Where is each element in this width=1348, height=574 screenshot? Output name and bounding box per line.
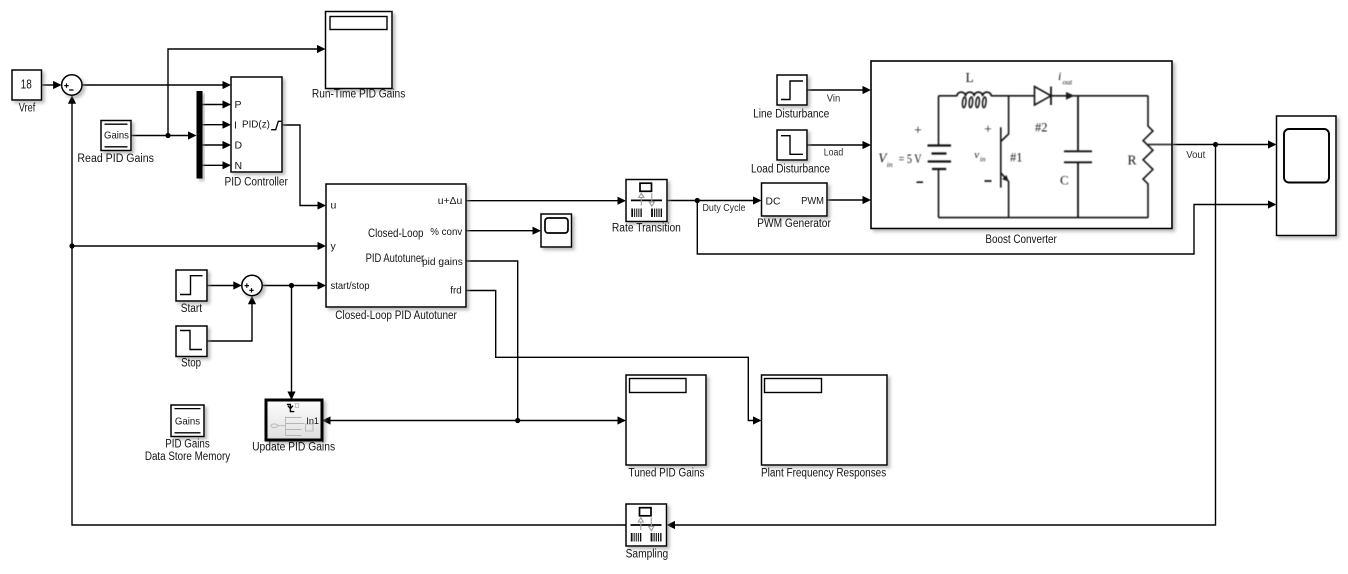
svg-text:u+Δu: u+Δu xyxy=(438,195,463,207)
wire Load Disturbance to Boost Converter xyxy=(807,144,864,146)
svg-text:in: in xyxy=(980,156,986,164)
arrow demux I into PID xyxy=(223,121,232,129)
svg-text:I: I xyxy=(234,119,237,131)
svg-text:C: C xyxy=(1060,173,1069,188)
svg-text:v: v xyxy=(974,149,979,161)
svg-text:18: 18 xyxy=(21,78,32,92)
wire Rate Transition to PWM Generator xyxy=(667,200,755,202)
svg-text:P: P xyxy=(235,99,242,111)
svg-text:PWM: PWM xyxy=(801,195,824,207)
node Duty Cycle branch xyxy=(695,198,700,203)
svg-text:PID Autotuner: PID Autotuner xyxy=(366,251,425,265)
wire demux out D xyxy=(203,144,225,146)
svg-text:Tuned PID Gains: Tuned PID Gains xyxy=(629,468,705,480)
svg-text:PWM Generator: PWM Generator xyxy=(757,218,831,230)
inductor L xyxy=(957,92,991,96)
wire conv to small scope xyxy=(466,230,534,232)
svg-text:start/stop: start/stop xyxy=(331,280,370,292)
wire Stop to Sum2 bottom xyxy=(207,303,252,341)
capacitor C xyxy=(1064,96,1092,218)
arrow into Sum2 xyxy=(233,281,242,289)
wire top rail middle xyxy=(991,95,1034,97)
wire battery top xyxy=(938,96,940,145)
arrow into PID Controller top input xyxy=(223,81,232,89)
scope big (Vout display) xyxy=(1277,116,1337,236)
step block Start xyxy=(176,270,207,301)
wire pid gains right branch to Tuned PID Gains xyxy=(518,420,619,422)
svg-text:Read PID Gains: Read PID Gains xyxy=(77,153,154,165)
resistor R xyxy=(1143,96,1153,218)
wire Vout branch down to Sampling xyxy=(675,145,1216,526)
sum block Sum2 xyxy=(242,275,262,295)
svg-text:= 5 V: = 5 V xyxy=(899,151,922,166)
wire bottom rail xyxy=(939,217,1149,219)
wire Read PID Gains to Demux xyxy=(131,135,190,137)
wire PID Controller output to Autotuner u xyxy=(282,125,319,206)
arrow into Tuned PID Gains xyxy=(618,416,627,424)
svg-text:Rate Transition: Rate Transition xyxy=(612,223,681,235)
constant Vref xyxy=(12,70,42,100)
svg-text:R: R xyxy=(1128,153,1137,168)
arrow into Boost input 3 xyxy=(863,196,872,204)
arrow demux D into PID xyxy=(223,141,232,149)
svg-text:PID Controller: PID Controller xyxy=(225,176,289,188)
arrow into Update PID Gains trigger xyxy=(287,392,295,401)
arrow into Sum1 bottom (feedback) xyxy=(68,95,76,104)
node feedback y branch xyxy=(69,243,74,248)
arrow into PWM Generator xyxy=(753,196,762,204)
scope Plant Frequency Responses xyxy=(762,375,888,465)
svg-text:Duty Cycle: Duty Cycle xyxy=(703,203,746,214)
wire frd to Plant Frequency Responses xyxy=(466,291,755,421)
arrow into small scope xyxy=(533,227,542,235)
rate transition block Sampling xyxy=(626,504,667,546)
mini preview xyxy=(271,417,313,437)
subsystem Boost Converter xyxy=(871,61,1172,229)
wire top rail right xyxy=(1051,95,1148,97)
svg-text:Load: Load xyxy=(824,147,843,158)
arrow into Boost input 2 xyxy=(863,141,872,149)
svg-text:N: N xyxy=(235,160,243,172)
arrow into Sum1 xyxy=(53,81,62,89)
output stub Vout xyxy=(1148,144,1172,146)
ARROWS xyxy=(53,45,1276,529)
svg-text:Gains: Gains xyxy=(175,415,200,427)
svg-text:+: + xyxy=(914,124,922,139)
wire Duty Cycle branch to big scope input 2 xyxy=(697,201,1269,255)
arrow into Update PID Gains In1 (pointing left) xyxy=(322,416,331,424)
svg-text:D: D xyxy=(235,140,243,152)
wire PWM Generator to Boost Converter xyxy=(827,199,864,201)
circuit inside Boost Converter xyxy=(878,69,1171,218)
scope Run-Time PID Gains xyxy=(326,12,393,89)
svg-text:frd: frd xyxy=(450,285,462,297)
arrow into Demux xyxy=(188,131,197,139)
arrow into big scope input 1 xyxy=(1268,140,1277,148)
svg-text:L: L xyxy=(966,70,974,85)
node Vout branch xyxy=(1213,142,1218,147)
wire demux out P xyxy=(203,104,225,106)
wire Vout to big scope input 1 xyxy=(1172,144,1270,146)
svg-text:in: in xyxy=(887,160,893,169)
svg-text:PID Gains: PID Gains xyxy=(165,439,210,451)
wire y input from feedback to Autotuner xyxy=(72,245,319,247)
wire feedback vertical from Sampling up to Sum1 minus input xyxy=(72,103,626,525)
wire Start to Sum2 xyxy=(207,285,235,287)
svg-text:Boost Converter: Boost Converter xyxy=(985,234,1057,246)
arrow demux N into PID xyxy=(223,161,232,169)
svg-text:Vin: Vin xyxy=(827,93,841,104)
trigger glyph xyxy=(287,404,294,411)
svg-text:Stop: Stop xyxy=(181,357,201,369)
svg-text:In1: In1 xyxy=(306,416,319,427)
arrow into Sampling right side (pointing left) xyxy=(667,521,676,529)
node pid gains branch xyxy=(515,418,520,423)
battery V_in xyxy=(928,146,952,170)
data store memory block PID Gains xyxy=(171,405,204,437)
wire Vref to Sum1 xyxy=(42,84,55,86)
node Read PID Gains branch xyxy=(165,133,170,138)
step block Stop xyxy=(176,326,207,357)
svg-text:Plant Frequency Responses: Plant Frequency Responses xyxy=(761,468,886,480)
arrow into Sum2 bottom xyxy=(248,296,256,305)
transistor #1 xyxy=(1001,96,1009,218)
wire Line Disturbance to Boost Converter xyxy=(807,89,864,91)
diode #2 xyxy=(1035,87,1052,106)
svg-text:Vref: Vref xyxy=(19,103,36,115)
current arrow i_out xyxy=(1066,92,1075,100)
scope Tuned PID Gains xyxy=(626,375,706,465)
arrow into Autotuner u xyxy=(318,201,327,209)
wire pid gains left branch to Update PID Gains In1 xyxy=(330,420,518,422)
svg-text:DC: DC xyxy=(766,195,781,207)
block Closed-Loop PID Autotuner xyxy=(326,184,466,307)
arrow into Boost input 1 xyxy=(863,86,872,94)
data store read block Read PID Gains xyxy=(101,121,131,151)
svg-text:out: out xyxy=(1063,78,1074,87)
subsystem Update PID Gains xyxy=(266,400,322,440)
arrow into Run-Time PID Gains scope xyxy=(317,45,326,53)
svg-text:% conv: % conv xyxy=(430,226,463,238)
demux (mux bar) xyxy=(197,91,203,179)
svg-text:Sampling: Sampling xyxy=(626,548,669,560)
wire trigger Sum2 branch down to Update PID Gains xyxy=(291,286,293,393)
svg-text:Gains: Gains xyxy=(104,129,129,141)
svg-text:Update PID Gains: Update PID Gains xyxy=(252,442,335,454)
scope small (conv display) xyxy=(541,214,572,247)
polarity minus battery and minus transistor xyxy=(917,181,992,182)
svg-text:PID(z): PID(z) xyxy=(242,119,270,131)
block PWM Generator xyxy=(762,183,828,216)
arrow into Autotuner y xyxy=(318,242,327,250)
wire Sum2 to start/stop xyxy=(262,285,319,287)
arrow into big scope input 2 xyxy=(1268,200,1277,208)
svg-text:Closed-Loop: Closed-Loop xyxy=(368,226,424,240)
arrow into Rate Transition xyxy=(618,197,627,205)
svg-text:y: y xyxy=(331,240,337,252)
svg-text:Run-Time PID Gains: Run-Time PID Gains xyxy=(312,89,406,101)
svg-text:i: i xyxy=(1058,69,1061,83)
step block Load Disturbance xyxy=(777,130,807,160)
block PID Controller xyxy=(231,77,282,172)
wire u+du to Rate Transition xyxy=(466,200,619,202)
svg-text:Vout: Vout xyxy=(1186,150,1205,161)
svg-text:Line Disturbance: Line Disturbance xyxy=(753,109,829,121)
wire demux out I xyxy=(203,124,225,126)
wire pid gains output down xyxy=(466,261,518,421)
wire battery bottom xyxy=(938,169,940,217)
svg-text:Data Store Memory: Data Store Memory xyxy=(145,451,231,463)
svg-text:pid gains: pid gains xyxy=(422,256,463,268)
svg-text:u: u xyxy=(331,199,337,211)
node Sum2 output branch xyxy=(289,283,294,288)
wire demux out N xyxy=(203,164,225,166)
svg-text:Load Disturbance: Load Disturbance xyxy=(751,163,830,175)
svg-text:#2: #2 xyxy=(1035,121,1048,135)
sum block Sum1 xyxy=(62,75,82,95)
svg-text:#1: #1 xyxy=(1010,151,1023,165)
wire Read PID Gains branch up to Run-Time PID Gains scope xyxy=(168,49,319,136)
arrow into Autotuner start/stop xyxy=(318,281,327,289)
arrow demux P into PID xyxy=(223,100,232,108)
wire top rail left xyxy=(939,95,958,97)
wire Sum1 to PID Controller input xyxy=(82,84,224,86)
svg-text:Closed-Loop PID Autotuner: Closed-Loop PID Autotuner xyxy=(335,310,457,322)
arrow into Plant Frequency Responses xyxy=(753,416,762,424)
step block Line Disturbance xyxy=(777,75,807,105)
rate transition block Rate Transition xyxy=(626,180,667,222)
svg-text:Start: Start xyxy=(181,303,203,315)
svg-text:+: + xyxy=(984,123,992,138)
